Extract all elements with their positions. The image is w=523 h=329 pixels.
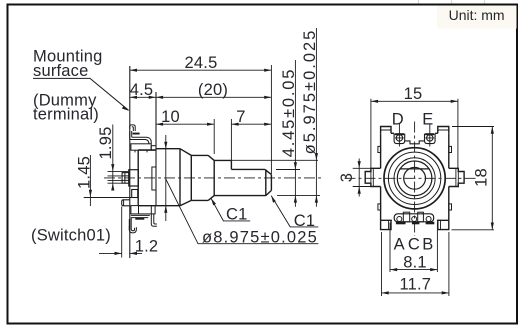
svg-text:(Switch01): (Switch01) — [31, 227, 111, 245]
dim 1.95 (rotated) — [97, 125, 115, 191]
inner circle — [404, 167, 426, 189]
bottom switch terminal hook — [129, 206, 157, 233]
dim 8.1 — [390, 223, 437, 273]
mounting surface line — [129, 66, 131, 258]
ext line: body face — [155, 92, 157, 149]
svg-text:3: 3 — [338, 173, 356, 182]
dim 15 — [371, 85, 458, 168]
frame top edge — [391, 132, 438, 134]
side notch rects — [378, 146, 381, 152]
right lug — [449, 168, 464, 186]
frame sides — [381, 133, 449, 220]
cone section — [156, 149, 191, 206]
svg-text:A: A — [394, 236, 405, 254]
dim 4.5 — [130, 81, 156, 99]
dim (20) — [156, 81, 272, 99]
dim 10 — [156, 108, 214, 126]
body front face — [155, 92, 157, 206]
dim 4.45±0.05 (rotated) — [280, 60, 298, 207]
svg-text:7: 7 — [236, 108, 245, 126]
svg-text:B: B — [422, 236, 433, 254]
ext line: flat level — [276, 169, 300, 171]
svg-text:24.5: 24.5 — [185, 54, 218, 72]
svg-text:C1: C1 — [226, 206, 248, 224]
ring 3 — [394, 158, 435, 199]
lower mounting boss — [122, 200, 130, 206]
dim ø5.975±0.025 (rotated) — [301, 28, 319, 207]
svg-text:1.2: 1.2 — [135, 238, 159, 256]
plunger — [122, 173, 129, 184]
left lug — [365, 168, 380, 186]
dim 18 — [452, 127, 495, 230]
dim 1.45 (rotated) — [75, 155, 93, 206]
svg-text:4.45±0.05: 4.45±0.05 — [280, 68, 298, 157]
leader ø8.975 with diameter arrows — [164, 135, 318, 247]
shaft circle — [397, 161, 432, 196]
bushing — [191, 155, 214, 200]
dim 11.7 — [382, 232, 449, 296]
label mounting surface — [33, 48, 129, 111]
frame top tabs — [381, 127, 449, 134]
dim 7 — [231, 108, 271, 126]
bottom tabs — [381, 220, 449, 229]
front view h centerline — [345, 177, 479, 179]
top dummy terminal hook — [130, 125, 156, 152]
svg-text:(20): (20) — [198, 81, 228, 99]
shaft — [214, 160, 271, 195]
ext line: flat start — [230, 119, 232, 160]
svg-text:15: 15 — [404, 85, 423, 103]
frame bottom edge — [381, 219, 449, 221]
chamfer label C1 (bushing) — [211, 198, 250, 223]
bottom hook solder tick — [135, 218, 144, 220]
svg-text:1.45: 1.45 — [75, 156, 93, 189]
plunger ext ticks — [108, 171, 129, 183]
front view v centerline — [414, 122, 416, 237]
molding notch between terminals — [405, 141, 425, 144]
unit label background — [437, 6, 517, 29]
dim 3 — [338, 159, 371, 197]
dim 24.5 — [130, 54, 272, 72]
chamfer label C1 (shaft end) — [271, 196, 318, 230]
svg-text:terminal): terminal) — [33, 106, 99, 124]
dim 1.2 — [99, 207, 158, 258]
ext line: shaft bottom — [277, 194, 320, 196]
svg-text:4.5: 4.5 — [130, 81, 154, 99]
svg-text:1.95: 1.95 — [97, 127, 115, 160]
1.45 ext tick — [84, 197, 132, 199]
svg-text:ø5.975±0.025: ø5.975±0.025 — [301, 29, 319, 155]
svg-text:18: 18 — [473, 168, 491, 187]
body (housing) — [138, 150, 156, 206]
top hook solder tick — [133, 133, 140, 135]
svg-text:E: E — [422, 111, 433, 129]
svg-text:D: D — [392, 111, 404, 129]
solder feet (black) — [396, 222, 406, 225]
switch plunger boss — [129, 170, 139, 186]
label dummy terminal — [33, 92, 99, 124]
svg-text:Unit: mm: Unit: mm — [449, 7, 505, 23]
strip terminal circles A C B — [397, 217, 402, 222]
bottom terminal strip — [394, 214, 434, 222]
ext line: shaft top — [231, 159, 318, 161]
centerline (side view axis) — [104, 177, 322, 179]
svg-text:C: C — [408, 236, 420, 254]
terminal E circle — [427, 135, 433, 141]
svg-text:10: 10 — [161, 108, 180, 126]
ext line: bushing end — [213, 119, 215, 154]
svg-text:8.1: 8.1 — [403, 253, 427, 271]
ring 2 — [388, 152, 440, 204]
svg-text:ø8.975±0.025: ø8.975±0.025 — [202, 229, 318, 247]
strip top small rects — [403, 212, 409, 222]
svg-text:11.7: 11.7 — [399, 276, 431, 294]
body inner slot — [152, 167, 156, 190]
svg-text:surface: surface — [33, 62, 89, 80]
switch terminal stub — [132, 190, 138, 198]
terminal D box — [394, 134, 405, 143]
terminal E box — [425, 134, 436, 143]
outer circle — [384, 148, 445, 209]
svg-text:C1: C1 — [294, 212, 316, 230]
terminal D circle — [396, 135, 402, 141]
shaft flat chord — [400, 168, 430, 170]
faint ticks above frame — [419, 0, 485, 4]
ext line: shaft end — [270, 65, 272, 174]
